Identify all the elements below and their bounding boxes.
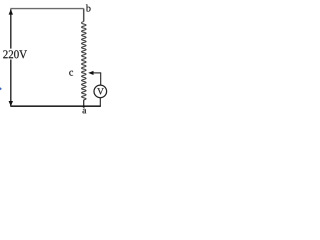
- label c: [69, 71, 73, 76]
- wire: wiper horizontal lead: [93, 72, 101, 74]
- arrowhead up at top of left line: [9, 9, 13, 14]
- wire: resistor bottom lead to node a: [83, 100, 85, 107]
- label a: [82, 109, 86, 114]
- wire: left vertical (220V span), upper segment: [10, 9, 12, 48]
- wire: voltmeter bottom lead to bottom wire: [99, 98, 101, 107]
- stray blue cursor mark at left edge: [0, 87, 2, 90]
- voltmeter V (meter circle): [94, 85, 107, 98]
- label 220V: [3, 50, 27, 58]
- wiper arrowhead pointing at c: [88, 71, 93, 75]
- arrowhead down at bottom of left line: [9, 101, 13, 106]
- wire: resistor top lead: [83, 9, 85, 22]
- wire: bottom horizontal a to left corner: [10, 105, 101, 107]
- voltmeter letter V: [97, 88, 104, 94]
- wire: top horizontal from left line to resistor top: [10, 8, 83, 10]
- wire: from wiper corner down to voltmeter: [100, 72, 102, 85]
- wire: left vertical lower segment: [10, 60, 12, 106]
- resistor R (slide-wire b to a): [82, 22, 87, 100]
- label b: [86, 4, 91, 11]
- node a junction dot: [83, 105, 85, 107]
